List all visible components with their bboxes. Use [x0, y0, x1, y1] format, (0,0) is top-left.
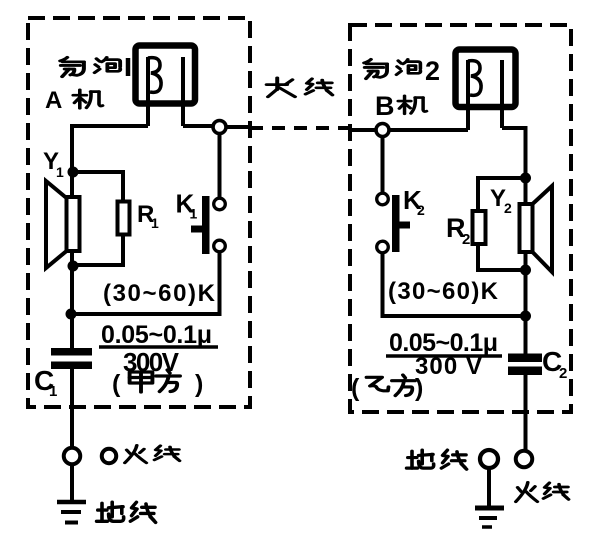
main vertical line right (lower) — [524, 372, 528, 450]
wire K2 bottom to main line — [383, 253, 526, 316]
svg-text:2: 2 — [559, 365, 567, 382]
switch K1 — [191, 196, 225, 254]
wire node to K1 top contact — [218, 134, 222, 197]
svg-text:300 V: 300 V — [415, 353, 482, 380]
svg-text:2: 2 — [425, 56, 440, 86]
svg-text:2: 2 — [504, 200, 512, 216]
svg-text:): ) — [195, 370, 203, 398]
label (30~60)K left — [103, 280, 216, 307]
wire bulb2 right lead over to main line — [502, 126, 526, 130]
wire R1 top — [73, 172, 123, 200]
terminal circle 火线 legend left — [102, 449, 117, 464]
svg-text:(: ( — [351, 374, 360, 402]
label (甲方) — [112, 370, 203, 398]
node terminal circle left line output — [213, 121, 226, 134]
neon bulb NE1 body — [136, 46, 196, 127]
wire R2 bottom — [478, 246, 526, 270]
wire box edge to node B — [350, 128, 375, 132]
svg-text:1: 1 — [49, 383, 57, 400]
label A机 — [45, 87, 103, 114]
node dot B2 — [520, 265, 531, 276]
node dot B3 — [520, 311, 531, 322]
wire node B to bulb2 left lead — [390, 128, 468, 132]
neon bulb NE2 body — [456, 50, 516, 131]
node terminal circle right line input — [376, 124, 389, 137]
capacitor C2 — [508, 354, 542, 376]
label 长线 — [267, 78, 333, 97]
label K1 — [176, 189, 198, 222]
label 氖泡2 — [364, 56, 440, 86]
svg-text:2: 2 — [462, 231, 470, 248]
label Y1 — [43, 148, 64, 180]
ground symbol right — [475, 508, 504, 527]
node dot A3 — [66, 309, 77, 320]
label C1 — [34, 365, 57, 400]
speaker Y1 — [46, 181, 80, 268]
capacitor C1 — [51, 348, 92, 369]
wire node to box edge — [227, 125, 250, 129]
svg-text:A: A — [45, 87, 62, 114]
label B机 — [375, 91, 427, 121]
label Y2 — [490, 185, 512, 216]
label 火线 left — [125, 445, 180, 463]
label 火线 right — [516, 482, 569, 501]
svg-text:1: 1 — [190, 206, 198, 222]
enclosure dashed box A (left unit) — [28, 18, 250, 407]
svg-text:(30~60)K: (30~60)K — [388, 278, 499, 305]
label R2 — [446, 213, 470, 248]
enclosure dashed box B (right unit) — [350, 25, 571, 412]
svg-text:(: ( — [112, 370, 121, 398]
svg-text:1: 1 — [56, 164, 64, 180]
label R1 — [137, 201, 159, 231]
label 氖泡1 — [60, 57, 128, 76]
wire R2 top — [478, 178, 526, 209]
terminal circle 火线 right — [516, 451, 533, 468]
wire 地线 terminal to ground right — [487, 468, 491, 506]
label (30~60)K right — [388, 278, 499, 305]
wire bulb1 right lead to node — [183, 124, 212, 128]
ground symbol left — [57, 502, 86, 523]
node dot B1 — [520, 173, 531, 184]
main vertical line left (lower) — [70, 367, 74, 447]
main vertical line left (upper) — [70, 124, 74, 351]
label 0.05~0.1u 300V fraction right — [386, 329, 502, 380]
resistor R1 — [118, 202, 130, 235]
node dot A2 — [68, 261, 79, 272]
svg-text:1: 1 — [151, 215, 159, 231]
svg-text:2: 2 — [417, 202, 425, 218]
resistor R2 — [473, 211, 486, 244]
svg-text:0.05~0.1μ: 0.05~0.1μ — [101, 321, 212, 349]
wire K1 bottom to main line — [71, 253, 220, 314]
node dot A1 — [68, 167, 79, 178]
wire R1 bottom — [73, 236, 123, 265]
wire node B to K2 top contact — [381, 137, 385, 193]
terminal circle left ground lead — [64, 448, 81, 465]
label (乙方) — [351, 374, 423, 402]
wire long line (dashed) — [250, 126, 350, 130]
main vertical line right (upper) — [524, 126, 528, 356]
wire bulb1 left lead to main line — [72, 124, 148, 128]
terminal circle 地线 right — [480, 450, 498, 468]
svg-text:): ) — [415, 374, 423, 402]
svg-text:(30~60)K: (30~60)K — [103, 280, 216, 307]
speaker Y2 — [520, 186, 553, 272]
wire terminal to ground — [70, 465, 74, 501]
label 地线 right — [407, 450, 467, 469]
label 地线 left — [97, 502, 156, 522]
switch K2 — [377, 193, 410, 253]
label K2 — [403, 185, 425, 218]
svg-text:B: B — [375, 91, 395, 121]
label 0.05~0.1u 300V fraction left — [99, 321, 218, 377]
label C2 — [542, 346, 567, 382]
